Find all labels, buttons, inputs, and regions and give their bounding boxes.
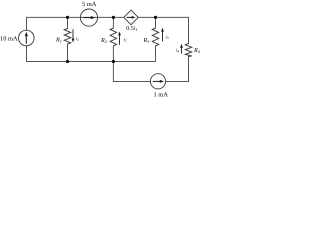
svg-text:5 mA: 5 mA <box>82 1 97 8</box>
current arrow i4 at R4 (up) <box>180 44 183 54</box>
wire R3 branch leads <box>155 17 157 28</box>
svg-text:R1: R1 <box>55 37 62 44</box>
current arrow i1 at R1 (down) <box>72 29 75 42</box>
wire top rail <box>27 16 124 18</box>
wire bottom rail <box>27 61 156 63</box>
arrow inside dependent source diamond <box>127 16 136 19</box>
wire lower drop from node B <box>112 62 114 82</box>
resistor R1 zigzag <box>64 29 70 45</box>
svg-text:R4: R4 <box>193 47 200 54</box>
node dot top of R3 <box>154 16 157 19</box>
current arrow i2 at R2 (up) <box>118 32 121 45</box>
wire right rail <box>188 17 190 43</box>
node dot bottom of R1 <box>66 60 69 63</box>
svg-text:i1: i1 <box>76 36 79 42</box>
svg-text:1 mA: 1 mA <box>154 92 169 99</box>
svg-text:i4: i4 <box>176 48 179 54</box>
svg-text:i2: i2 <box>124 37 127 43</box>
arrow inside 10 mA source <box>25 32 28 44</box>
wire R2 branch leads <box>112 17 114 28</box>
svg-text:R2: R2 <box>100 37 107 44</box>
wire bottom lower rail <box>113 81 150 83</box>
svg-text:10 mA: 10 mA <box>0 35 18 42</box>
current arrow i3 at R3 (up) <box>161 28 164 42</box>
node dot top of R1 <box>66 16 69 19</box>
wire R1 branch leads <box>67 17 69 28</box>
current source I1 10 mA circle <box>19 30 35 46</box>
resistor R2 zigzag <box>110 28 116 46</box>
arrow inside 1 mA source <box>153 80 164 83</box>
svg-text:R3: R3 <box>143 37 150 44</box>
resistor R4 zigzag <box>185 44 191 57</box>
node dot bottom of R2 <box>112 60 115 63</box>
svg-text:0.5i1: 0.5i1 <box>126 26 137 32</box>
wire left rail <box>26 17 28 30</box>
current source I3 1 mA circle <box>150 74 165 89</box>
current source I2 5 mA circle <box>80 9 97 26</box>
arrow inside 5 mA source <box>83 16 95 19</box>
dependent source diamond 0.5i1 <box>124 10 138 25</box>
resistor R3 zigzag <box>152 28 158 46</box>
svg-text:i3: i3 <box>166 34 169 40</box>
node dot top of R2 <box>112 16 115 19</box>
